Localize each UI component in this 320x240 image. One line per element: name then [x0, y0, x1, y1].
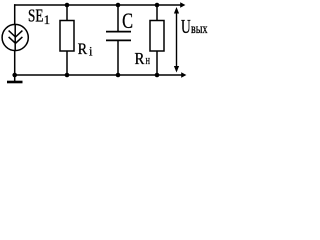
- current source SE1: [2, 24, 28, 50]
- svg-text:вых: вых: [191, 21, 208, 36]
- svg-text:R: R: [78, 41, 88, 58]
- svg-text:1: 1: [44, 13, 50, 27]
- junction dot top rail at Rn: [155, 3, 160, 8]
- svg-text:н: н: [146, 53, 151, 67]
- wire Ri top lead: [66, 5, 68, 21]
- ground: [7, 81, 23, 84]
- wire Rn top lead: [156, 5, 158, 21]
- resistor Ri: [60, 21, 74, 52]
- svg-text:R: R: [135, 49, 145, 68]
- voltage arrow Uout: [174, 7, 179, 73]
- svg-text:U: U: [181, 17, 191, 38]
- wire source bottom lead: [14, 51, 16, 82]
- svg-text:SE: SE: [28, 5, 43, 25]
- bottom rail output arrowhead: [181, 72, 186, 77]
- wire top rail: [14, 4, 181, 6]
- capacitor C: [106, 32, 131, 41]
- junction dot source-bottom rail: [12, 73, 17, 78]
- wire Ri bottom lead: [66, 51, 68, 75]
- wire C top lead: [117, 5, 119, 32]
- junction dot bottom rail at Ri: [65, 73, 70, 78]
- wire bottom rail: [15, 74, 183, 76]
- junction dot bottom rail at C: [116, 73, 121, 78]
- junction dot bottom rail at Rn: [155, 73, 160, 78]
- junction dot top rail at C: [116, 3, 121, 8]
- resistor Rn: [150, 21, 164, 52]
- wire C bottom lead: [117, 40, 119, 75]
- top rail output arrowhead: [180, 2, 185, 7]
- wire source top lead: [14, 4, 16, 25]
- junction dot top rail at Ri: [65, 3, 70, 8]
- svg-text:i: i: [89, 44, 93, 58]
- wire Rn bottom lead: [156, 51, 158, 75]
- svg-text:C: C: [122, 8, 133, 33]
